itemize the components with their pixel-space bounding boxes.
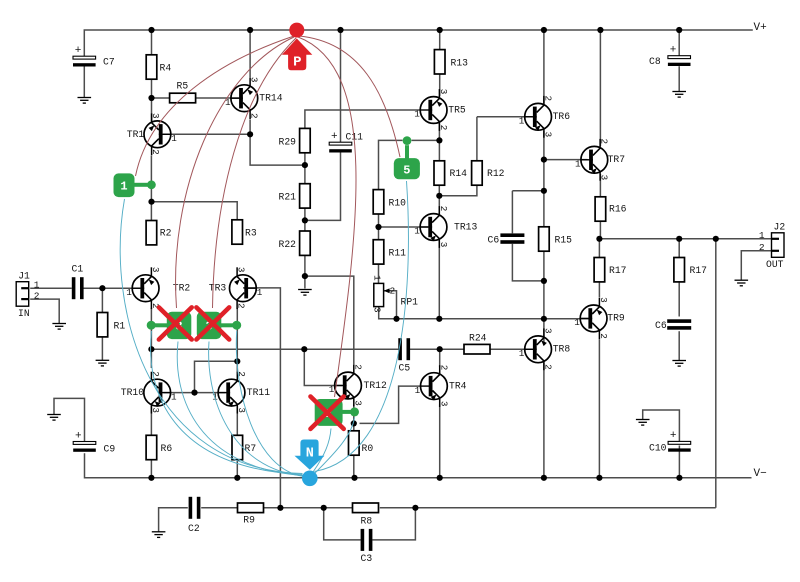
ratsnest cyan: N to right crossed dot (236, 331, 304, 477)
svg-text:2: 2 (249, 113, 260, 119)
junction V-/TR8 (541, 475, 547, 481)
ground below J2 pin2 (735, 280, 749, 286)
resistor R1 (97, 313, 125, 337)
junction TR1 emitter/R2/R3 (148, 199, 154, 205)
capacitor C11 (electrolytic) (329, 131, 363, 153)
svg-text:5: 5 (403, 164, 410, 178)
svg-text:TR4: TR4 (449, 380, 467, 391)
svg-text:TR11: TR11 (247, 387, 270, 398)
junction R21/R22/C11 (302, 217, 308, 223)
wire: C6 right to ground (678, 331, 680, 360)
svg-text:V+: V+ (754, 22, 767, 34)
wire: TR6 emitter down through nodes to R15 (543, 131, 545, 227)
svg-text:3: 3 (352, 400, 363, 406)
svg-text:C9: C9 (104, 444, 116, 455)
resistor R17 (674, 258, 707, 282)
wire: TR6 emitter node to TR7 base (544, 159, 588, 161)
wire: R12 down then left to TR13 collector node (439, 185, 477, 196)
transistor TR8 (519, 328, 571, 370)
wire: V+ rail down to C11 (340, 30, 342, 142)
wire: R0 to V- rail (353, 455, 355, 478)
svg-text:+: + (670, 430, 677, 442)
wire: V+ rail down to R13 (439, 30, 441, 50)
connector J1 (16, 271, 30, 319)
wire: TR4 collector up to tail node (439, 349, 441, 367)
potentiometer RP1 (372, 275, 419, 313)
wire: C3 left leg (324, 508, 361, 540)
svg-text:+: + (670, 45, 677, 57)
svg-text:TR1: TR1 (127, 129, 145, 140)
transistor TR7 (575, 139, 625, 181)
wire: TR12 emitter down to R0 (353, 405, 355, 431)
wire: TR1 emitter down to R2 (150, 156, 152, 221)
wire: TR3 base right then down to feedback node (243, 288, 280, 508)
capacitor C6 (488, 233, 525, 245)
svg-text:2: 2 (599, 139, 610, 145)
junction V+/C8 (676, 27, 682, 33)
transistor TR3 (209, 267, 263, 309)
wire: tail node down to TR10 collector (150, 349, 152, 368)
svg-text:C3: C3 (361, 553, 373, 564)
junction V-/R7 (234, 475, 240, 481)
wire: TR9 emitter down to V- rail (598, 340, 600, 478)
wire: TR13 emitter node right to TR8 collector node (439, 318, 543, 320)
red X over right crossed net label (196, 307, 229, 339)
svg-text:R5: R5 (177, 81, 189, 92)
wire: V+ rail down to TR6 collector (543, 30, 545, 103)
wire: ground up to C2 (159, 508, 188, 532)
wire: TR1 base to TR14 emitter line (163, 133, 250, 135)
svg-text:R16: R16 (609, 204, 627, 215)
svg-text:J2: J2 (774, 222, 786, 233)
wire: TR2 emitter down to tail node (150, 308, 152, 349)
crossed net label at TR12 (315, 399, 359, 426)
svg-text:1: 1 (759, 230, 765, 241)
svg-text:2: 2 (352, 364, 363, 370)
ground below C7 (78, 98, 92, 104)
svg-text:R22: R22 (279, 239, 297, 250)
ratsnest red: P to crossed net label left (176, 37, 294, 308)
wire: R11 to RP1 (378, 264, 380, 283)
junction C6/R15 top (541, 188, 547, 194)
junction TR2 emitter/tail (148, 346, 154, 352)
wire: R8 right to output feedback riser (380, 507, 716, 509)
wire: output node down to bottom feedback wire (715, 239, 717, 508)
svg-text:R3: R3 (245, 228, 257, 239)
svg-text:TR8: TR8 (553, 344, 571, 355)
svg-text:R17: R17 (690, 265, 708, 276)
wire: C1 to input node to TR2 base (84, 287, 140, 289)
svg-text:R11: R11 (389, 248, 407, 259)
svg-text:N: N (306, 447, 314, 462)
junction RP1 wiper (393, 316, 399, 322)
wire: net5 dot to TR5 emitter node (412, 139, 440, 141)
wire: output node down to R17 right (678, 239, 680, 258)
svg-text:TR10: TR10 (121, 387, 144, 398)
wire: output node to J2 pin1 (600, 238, 771, 240)
svg-text:R14: R14 (450, 168, 468, 179)
transistor TR13 (414, 206, 477, 248)
junction TR12 emitter/R0/TR4 base (351, 420, 357, 426)
wire: link node to TR11 collector (236, 361, 238, 372)
svg-text:3: 3 (150, 113, 161, 119)
wire: R7 to V- rail (236, 460, 238, 478)
ratsnest red: P to net5 marker (299, 36, 400, 157)
wire: J2 pin2 to ground (741, 251, 771, 280)
wire: R4 to node A to TR1 collector (151, 79, 153, 121)
resistor R9 (238, 503, 264, 526)
junction C6/R15 bottom (541, 278, 547, 284)
wire: corner to TR6 base (477, 116, 533, 118)
svg-text:R12: R12 (487, 168, 505, 179)
resistor R8 (353, 503, 379, 527)
junction R8-C3 left (321, 505, 327, 511)
ratsnest cyan: N to left crossed dot (151, 331, 303, 475)
capacitor C9 (electrolytic) (73, 430, 115, 454)
junction V+/TR7 (597, 27, 603, 33)
svg-text:1: 1 (519, 116, 525, 127)
ratsnest cyan: N to TR12 crossed dot (315, 418, 355, 474)
junction V-/R0 (351, 475, 357, 481)
resistor R15 (539, 227, 573, 251)
wire: R17 left to TR9 collector (598, 282, 600, 297)
wire: node A to R5 (152, 97, 170, 99)
transistor TR9 (574, 297, 625, 339)
wire: C7 to ground (83, 67, 85, 98)
wire: TR11 emitter to R7 (236, 406, 238, 435)
svg-text:R21: R21 (279, 192, 297, 203)
svg-text:3: 3 (598, 297, 609, 303)
junction R22/ground/TR12 (302, 273, 308, 279)
svg-text:R10: R10 (389, 198, 407, 209)
resistor R0 (349, 431, 374, 455)
transistor TR1 (127, 113, 177, 155)
wire: R22 to ground node (304, 255, 306, 288)
svg-text:R8: R8 (361, 516, 373, 527)
wire: TR14 emitter down then right to R29 bottom node (250, 120, 305, 166)
junction TR5 emitter/R14/net5 (436, 137, 442, 143)
resistor R22 (279, 231, 311, 255)
net marker P (V+ net) (282, 23, 312, 71)
svg-text:3: 3 (372, 307, 383, 313)
svg-text:TR14: TR14 (259, 93, 282, 104)
svg-text:C6: C6 (655, 320, 667, 331)
wire: R12 up to TR6 base corner (476, 117, 478, 161)
svg-text:3: 3 (438, 89, 449, 95)
capacitor C10 (electrolytic) (649, 430, 691, 453)
junction R29/R21 (302, 162, 308, 168)
wire: RP1 wiper down to node (391, 291, 397, 319)
junction V-/TR4 (437, 475, 443, 481)
wire: V- rail up to C10 (678, 446, 680, 478)
svg-text:1: 1 (414, 109, 420, 120)
svg-text:+: + (75, 430, 82, 442)
svg-text:2: 2 (150, 149, 161, 155)
svg-text:2: 2 (390, 286, 396, 297)
svg-text:3: 3 (543, 328, 554, 334)
resistor R29 (279, 128, 311, 152)
svg-text:2: 2 (438, 125, 449, 131)
svg-text:TR9: TR9 (607, 313, 625, 324)
ratsnest cyan: N to left crossed label (177, 342, 303, 476)
svg-text:RP1: RP1 (401, 297, 419, 308)
wire: V+ rail down to R4 (151, 30, 153, 55)
resistor R14 (434, 161, 467, 185)
wire: C3 right leg (372, 508, 415, 540)
svg-text:TR7: TR7 (608, 154, 626, 165)
wire: tail wire left section to C5 (151, 348, 398, 350)
wire: R13 to TR5 collector (439, 74, 441, 96)
wire: J1 pin1 to C1 (30, 287, 72, 289)
transistor TR12 (329, 364, 387, 406)
resistor R10 (373, 190, 406, 214)
junction TR8 collector (541, 316, 547, 322)
svg-text:OUT: OUT (766, 259, 784, 270)
svg-text:3: 3 (599, 175, 610, 181)
svg-text:1: 1 (414, 226, 420, 237)
junction V+/TR14 (247, 27, 253, 33)
svg-text:1: 1 (415, 385, 421, 396)
svg-text:3: 3 (150, 407, 161, 413)
junction V-/TR9 (596, 475, 602, 481)
svg-text:C2: C2 (188, 523, 200, 534)
junction tail/TR12 base (301, 346, 307, 352)
junction V+/TR6 (541, 27, 547, 33)
resistor R7 (232, 435, 256, 459)
wire: C9 top to ground (54, 398, 85, 441)
svg-text:C8: C8 (649, 56, 661, 67)
junction R8-C3 right (412, 505, 418, 511)
svg-text:C6: C6 (488, 235, 500, 246)
wire: V+ rail from C7 to right edge (84, 30, 753, 56)
wire: node to TR13 base (379, 226, 429, 228)
svg-text:2: 2 (438, 206, 449, 212)
svg-text:R29: R29 (279, 137, 297, 148)
wire: C8 to ground (678, 66, 680, 91)
svg-text:1: 1 (171, 391, 177, 402)
wire: R10 to R11 through TR13 base node (378, 214, 380, 240)
svg-text:P: P (293, 55, 301, 71)
junction V+/C11 (337, 27, 343, 33)
resistor R16 (595, 197, 627, 221)
connector J2 (766, 222, 785, 270)
wire: R24 to TR8 base (490, 348, 532, 350)
wire: link node left then down to TR10/TR11 base node (195, 361, 238, 392)
ground below C8 (672, 92, 686, 98)
junction R4/R5/TR1 (148, 95, 154, 101)
svg-text:1: 1 (519, 348, 525, 359)
junction output/R17 right (676, 236, 682, 242)
transistor TR2 (126, 267, 190, 309)
wire: TR7 emitter to R16 (599, 174, 601, 197)
ground below C6 right (672, 361, 686, 367)
wire: tail node down then right to TR12 base (304, 349, 342, 385)
svg-text:1: 1 (171, 133, 177, 144)
capacitor C5 (398, 338, 410, 373)
svg-text:2: 2 (543, 364, 554, 370)
junction output/R17 left (596, 236, 602, 242)
wire: TR13 emitter down to node (438, 241, 440, 319)
resistor R6 (146, 435, 172, 459)
svg-text:1: 1 (126, 287, 132, 298)
svg-text:3: 3 (438, 242, 449, 248)
svg-text:TR13: TR13 (454, 221, 477, 232)
junction input node (99, 285, 105, 291)
net marker N (V- net) (295, 440, 325, 487)
wire: R29 top to TR5 base (305, 110, 421, 128)
svg-text:2: 2 (759, 242, 765, 253)
junction R14/R12/TR13 (436, 193, 442, 199)
junction TR4 collector/R24 (437, 346, 443, 352)
ground below R22 (298, 290, 312, 296)
resistor R12 (472, 161, 505, 185)
wire: TR3 emitter down to link node (236, 308, 238, 361)
junction V+/R4 (148, 27, 154, 33)
transistor TR5 (414, 89, 466, 131)
svg-text:C7: C7 (103, 57, 115, 68)
svg-text:R2: R2 (160, 228, 172, 239)
svg-text:R1: R1 (114, 321, 126, 332)
svg-text:C1: C1 (72, 264, 84, 275)
transistor TR10 (121, 371, 177, 413)
svg-text:1: 1 (372, 275, 383, 281)
wire: output node down to R17 left (598, 239, 600, 258)
wire: C11 down then left to R21/R22 node (305, 152, 341, 221)
junction TR3 emitter/TR11 (234, 358, 240, 364)
transistor TR14 (225, 77, 283, 119)
svg-text:2: 2 (598, 333, 609, 339)
transistor TR6 (519, 96, 570, 138)
wire: C10 top to ground (643, 410, 680, 441)
junction feedback/TR3 base riser (277, 505, 283, 511)
wire: TR1 emitter node right then down to R3 (151, 202, 237, 220)
svg-text:C10: C10 (649, 443, 667, 454)
wire: TR4 emitter down to V- rail (439, 405, 441, 478)
ratsnest cyan: N to right crossed label (209, 342, 304, 477)
resistor R13 (434, 50, 468, 74)
svg-text:2: 2 (438, 365, 449, 371)
wire: C6 bottom to R15 bottom node (512, 244, 544, 281)
svg-text:IN: IN (18, 308, 30, 319)
ratsnest red: P to crossed net label at TR12 (298, 37, 356, 397)
svg-text:1: 1 (575, 159, 581, 170)
svg-text:3: 3 (438, 401, 449, 407)
net marker 5 (green) (394, 136, 420, 179)
capacitor C8 (electrolytic) (649, 45, 691, 68)
svg-text:2: 2 (150, 371, 161, 377)
wire: R29 to R21 (304, 153, 306, 184)
wire: V+ rail down to TR7 collector (599, 30, 601, 146)
wire: R1 to ground (101, 337, 103, 361)
wire: R5 to TR14 base (196, 97, 239, 99)
red X over TR12 crossed net label (311, 397, 344, 429)
svg-text:TR3: TR3 (209, 283, 227, 294)
ratsnest red: P to net1 marker (136, 36, 295, 176)
svg-text:R15: R15 (555, 235, 573, 246)
svg-text:R7: R7 (245, 443, 257, 454)
ratsnest cyan: N to TR12 crossed label (313, 429, 331, 473)
junction TR6 emitter/TR7 base (541, 157, 547, 163)
resistor R5 (170, 81, 196, 103)
wire: input node down to R1 (101, 288, 103, 312)
svg-text:R9: R9 (243, 515, 255, 526)
ground left of C2 (152, 532, 166, 538)
svg-text:R0: R0 (362, 443, 374, 454)
svg-text:2: 2 (34, 290, 40, 301)
capacitor C1 (72, 264, 84, 300)
junction TR14 emitter/TR1 base (247, 131, 253, 137)
junction V+/R13 (437, 27, 443, 33)
svg-text:3: 3 (236, 267, 247, 273)
wire: J1 pin2 to ground (30, 299, 59, 323)
wire: R14 to TR13 collector (438, 185, 440, 214)
wire: C5 to R24 (410, 348, 464, 350)
wire: RP1 bottom to TR13 emitter node (379, 307, 440, 319)
wire: R15 bottom through node to TR8 collector (543, 251, 545, 345)
svg-text:J1: J1 (18, 271, 30, 282)
wire: R6 to V- rail (150, 460, 152, 478)
capacitor C6 (655, 319, 691, 331)
wire: R22 node right then down to TR12 collector (305, 276, 354, 364)
wire: C2 to R9 to R8 left node (201, 507, 352, 509)
capacitor C3 (361, 529, 373, 564)
svg-text:2: 2 (236, 303, 247, 309)
wire: C6 top to TR6/R15 line (512, 190, 544, 192)
resistor R2 (146, 221, 172, 245)
junction V-/R6 (148, 475, 154, 481)
wire: V- rail from C9 to right edge (85, 453, 752, 478)
svg-text:1: 1 (574, 317, 580, 328)
svg-text:V−: V− (754, 468, 767, 480)
junction output/feedback (713, 236, 719, 242)
svg-text:1: 1 (329, 384, 335, 395)
svg-text:TR6: TR6 (553, 111, 571, 122)
wire: R17 right to C6 right (678, 282, 680, 317)
svg-text:R17: R17 (609, 265, 627, 276)
wire: TR8 emitter down to V- rail (543, 363, 545, 478)
transistor TR4 (415, 365, 467, 407)
wire: TR4 base left down to TR12 emitter node (360, 386, 422, 423)
svg-text:R24: R24 (469, 333, 487, 344)
transistor TR11 (212, 371, 270, 413)
svg-text:2: 2 (543, 96, 554, 102)
wire: TR10 emitter to R6 (150, 406, 152, 435)
svg-text:3: 3 (543, 132, 554, 138)
wire: V+ rail down to TR14 collector (249, 30, 251, 77)
wire: TR5 emitter through node to R14 (438, 124, 440, 161)
svg-text:TR12: TR12 (364, 380, 387, 391)
resistor R4 (146, 55, 171, 79)
ratsnest cyan: N to net5 marker (315, 181, 409, 472)
capacitor C2 (188, 497, 200, 534)
resistor R21 (279, 184, 311, 208)
svg-text:1: 1 (120, 180, 127, 194)
ratsnest red: P to crossed net label right (213, 38, 297, 308)
net marker 1 (green) (114, 173, 156, 197)
ground above C10 (636, 420, 650, 426)
wire: TR10 base to TR11 base (164, 392, 226, 394)
junction R10/R11/TR13 base (375, 224, 381, 230)
ground below J1 pin2 (52, 324, 66, 330)
resistor R11 (373, 240, 406, 264)
svg-text:1: 1 (34, 279, 40, 290)
resistor R24 (464, 333, 490, 355)
wire: node to TR9 base (544, 318, 589, 320)
svg-text:1: 1 (225, 97, 231, 108)
ratsnest cyan: N to net1 marker (120, 199, 302, 474)
svg-text:+: + (331, 131, 338, 143)
ground above C9 (47, 415, 61, 421)
